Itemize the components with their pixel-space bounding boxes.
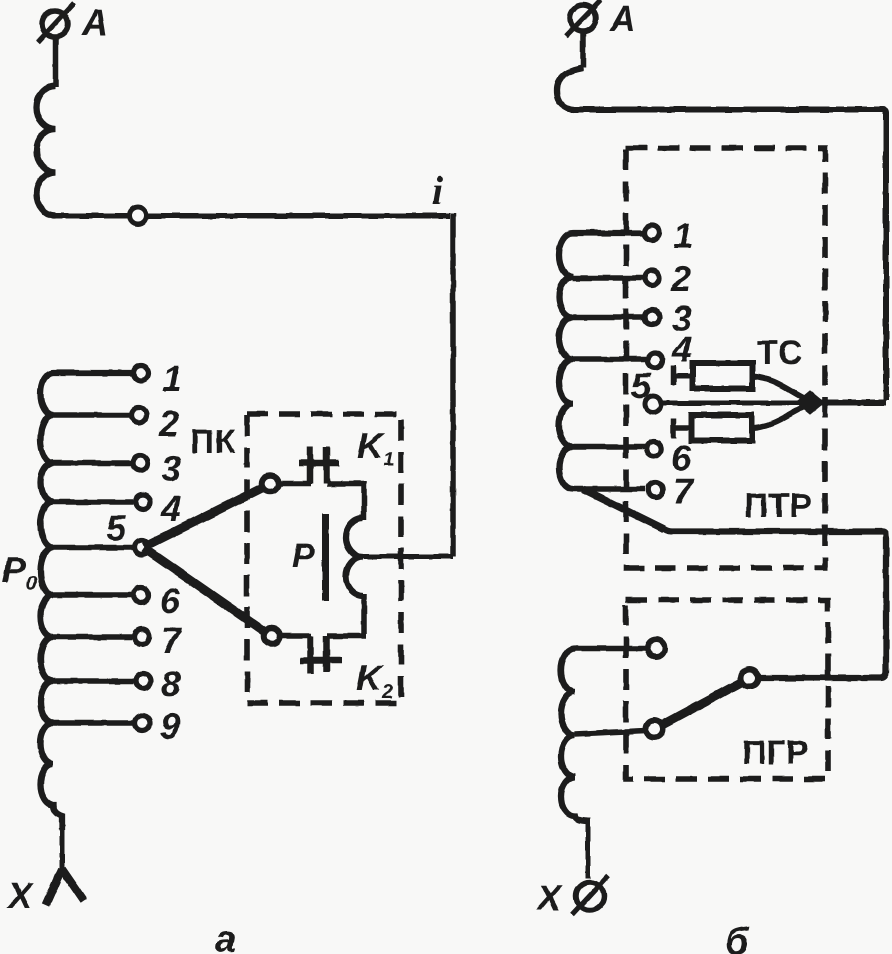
PGR upper contact wire	[574, 646, 648, 652]
svg-text:K2: K2	[356, 657, 393, 703]
wire i down to reactor mid-tap	[450, 214, 456, 557]
terminal A (circuit a)	[38, 3, 74, 42]
svg-text:2: 2	[670, 258, 691, 299]
dashed box PTR	[626, 148, 825, 568]
tap circle 7	[135, 630, 150, 645]
top wire to right rail	[571, 110, 886, 401]
svg-text:P0: P0	[2, 549, 37, 595]
svg-text:A: A	[81, 2, 108, 43]
PGR lower contact wire	[575, 731, 646, 735]
svg-text:A: A	[609, 0, 636, 39]
svg-text:3: 3	[161, 448, 181, 489]
tap wires 1-9	[51, 373, 133, 723]
dashed box PGR	[626, 600, 828, 779]
svg-text:ПГР: ПГР	[742, 734, 808, 772]
contact K2 wire	[280, 633, 311, 639]
tap circle 4	[136, 495, 151, 510]
reactor mid-tap wire	[356, 554, 453, 559]
svg-text:i: i	[432, 168, 443, 213]
tap circle b7	[648, 482, 663, 497]
tap circle 9	[135, 716, 150, 731]
svg-text:5: 5	[106, 507, 127, 548]
wire K1 to reactor	[361, 482, 367, 521]
selector contact circle lower	[264, 628, 281, 645]
svg-text:2: 2	[158, 403, 179, 444]
svg-text:ПК: ПК	[190, 423, 235, 461]
PGR upper contact circle	[648, 640, 665, 657]
wire reactor to K2	[327, 594, 366, 636]
resistor TC lower lead left T-bar	[674, 419, 693, 439]
svg-text:5: 5	[631, 365, 652, 406]
winding bottom diagonal to right rail	[583, 489, 886, 678]
reactor core bar	[322, 514, 329, 601]
series coil (circuit b)	[557, 68, 583, 110]
winding PTR	[559, 233, 646, 489]
svg-text:б: б	[725, 921, 750, 954]
svg-text:ПТР: ПТР	[744, 487, 812, 525]
svg-text:K1: K1	[357, 425, 394, 471]
tap circle 1	[134, 366, 149, 381]
wire winding to X (circuit b)	[586, 818, 591, 878]
tap circle 5	[135, 540, 150, 555]
svg-text:4: 4	[160, 488, 181, 529]
contactor dashed box (circuit a)	[247, 414, 401, 703]
selector contact circle upper	[262, 475, 279, 492]
svg-text:6: 6	[160, 580, 181, 621]
resistor TC upper right lead	[752, 376, 804, 398]
tap circle b2	[645, 271, 660, 286]
svg-text:а: а	[215, 919, 236, 954]
wire A to series winding	[53, 37, 59, 87]
terminal X (circuit b)	[572, 876, 608, 915]
tap circle 6	[134, 588, 149, 603]
selector arm upper PK	[144, 488, 262, 547]
tap circle 8	[136, 674, 151, 689]
svg-text:X: X	[6, 875, 34, 916]
tap circle b1	[645, 225, 660, 240]
tap wires 1-7 (circuit b)	[572, 233, 646, 489]
tap circle 2	[132, 408, 147, 423]
svg-text:P: P	[292, 537, 315, 575]
node junction dot	[799, 394, 821, 412]
resistor TC lower right lead	[752, 407, 804, 428]
main winding P0	[40, 373, 137, 830]
svg-text:8: 8	[161, 663, 181, 704]
terminal X fork (circuit a)	[46, 869, 84, 905]
svg-text:X: X	[535, 877, 563, 918]
terminal A (circuit b)	[566, 0, 601, 36]
svg-text:7: 7	[673, 471, 695, 512]
PGR lower contact circle	[646, 721, 663, 738]
resistor TC upper lead left T-bar	[674, 366, 694, 386]
contact K1 bars	[299, 447, 339, 485]
tap5 wire to node	[661, 401, 800, 406]
tap labels 1-7 (circuit b)	[670, 215, 695, 512]
resistor TC upper	[693, 363, 753, 389]
wire A to coil (circuit b)	[580, 31, 586, 68]
tap circle b3	[645, 310, 660, 325]
selector arm lower PK	[144, 548, 265, 632]
contact K1 wire	[278, 481, 364, 487]
tap circle b6	[646, 442, 661, 457]
tap circle b5	[645, 396, 661, 412]
svg-text:9: 9	[160, 705, 180, 746]
junction terminal on wire	[130, 207, 147, 224]
svg-text:1: 1	[162, 358, 182, 399]
tap circle b4	[648, 353, 663, 368]
resistor TC lower	[692, 415, 753, 441]
svg-text:7: 7	[161, 620, 183, 661]
reactor coil P	[346, 518, 363, 596]
series winding (circuit a)	[37, 86, 56, 216]
tap labels 1-9	[158, 358, 183, 746]
node wire right	[812, 400, 886, 406]
wire winding to i corner	[54, 213, 450, 219]
tap circle 3	[133, 456, 148, 471]
PGR switch blade	[662, 682, 742, 725]
svg-text:ТС: ТС	[757, 334, 802, 372]
svg-text:4: 4	[671, 329, 692, 370]
contact K2 bars	[300, 636, 342, 674]
PGR right contact circle	[741, 670, 758, 687]
winding PGR	[561, 649, 588, 822]
svg-text:1: 1	[673, 215, 693, 256]
wire winding to X terminal	[60, 816, 65, 871]
